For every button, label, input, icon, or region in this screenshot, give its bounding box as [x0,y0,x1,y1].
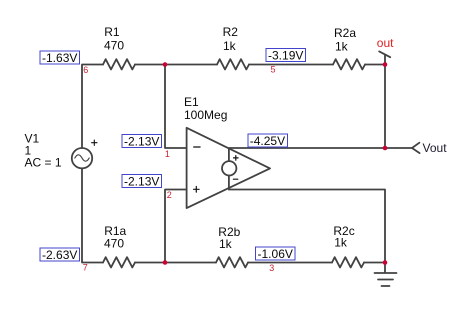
voltage box -3.19V [266,49,306,63]
wire R2a to out node [365,64,385,66]
svg-text:Vout: Vout [423,141,448,155]
svg-text:-1.63V: -1.63V [42,51,77,65]
svg-text:6: 6 [83,65,88,75]
wire node 1: junction down to E1 minus input [165,65,187,149]
svg-text:-4.25V: -4.25V [250,134,285,148]
svg-text:-3.19V: -3.19V [268,49,303,63]
svg-text:R2a: R2a [334,26,356,40]
junction dot node 6 [163,62,168,67]
voltage box -2.13V node 2 [122,175,162,189]
wire node 5 net: R2 to R2a [249,64,333,66]
svg-text:-2.13V: -2.13V [124,175,159,189]
op-amp E1 internal source circle [222,161,236,175]
svg-text:100Meg: 100Meg [184,108,227,122]
op-amp E1 source plus sign [234,156,239,161]
svg-text:AC = 1: AC = 1 [25,155,62,169]
svg-text:out: out [377,36,394,50]
wire top net: V1 plus terminal up to R1 [82,65,103,148]
op-amp E1 source minus sign [233,178,237,180]
svg-text:-2.63V: -2.63V [42,248,77,262]
resistor R2a [333,59,365,69]
wire output net: E1 out+ to Vout [229,147,412,149]
op-amp E1 internal source stem [228,148,230,189]
ground [375,263,397,287]
voltage source V1 circle [72,148,92,168]
op-amp E1 minus input sign [194,146,200,148]
voltage box -1.63V [40,51,80,65]
junction dot out top [383,62,388,67]
svg-text:R1: R1 [104,25,120,39]
voltage box -2.63V [40,248,80,262]
svg-text:3: 3 [269,263,274,273]
svg-text:470: 470 [104,236,124,250]
svg-text:-1.06V: -1.06V [258,247,293,261]
voltage source V1 plus sign [92,140,97,145]
wire V1 minus terminal down to bottom net [82,168,103,262]
wire E1 out- to ground node [229,190,385,263]
wire node 2: E1 plus input down to bottom net [165,190,187,263]
svg-text:1k: 1k [223,39,237,53]
svg-text:1k: 1k [335,39,349,53]
svg-text:470: 470 [104,38,124,52]
resistor R2b [216,257,248,267]
svg-text:E1: E1 [184,95,199,109]
voltage box -4.25V [248,134,288,148]
svg-text:1k: 1k [219,237,233,251]
svg-text:1k: 1k [334,236,348,250]
svg-text:5: 5 [271,64,276,74]
voltage source V1 sine [75,155,89,161]
pin marker out [379,51,390,64]
junction dot output net [383,146,388,151]
junction dot ground node [383,260,388,265]
pin Vout arrowhead [412,143,420,153]
svg-text:7: 7 [83,263,88,273]
junction dot node 7 [163,260,168,265]
wire R2c to ground node [364,262,385,264]
svg-text:1: 1 [165,149,170,159]
svg-text:2: 2 [167,190,172,200]
wire out node down to output net [384,65,386,149]
wire node 7 net: R1a to R2b [135,262,216,264]
wire node 6 net: R1 to R2 [135,64,217,66]
voltage box -1.06V [256,247,296,261]
resistor R1 [103,59,135,69]
op-amp E1 plus input sign [194,187,200,193]
op-amp E1 triangle [187,128,270,208]
resistor R1a [103,257,135,267]
svg-text:R2: R2 [223,25,239,39]
svg-text:-2.13V: -2.13V [124,135,159,149]
wire node 3 net: R2b to R2c [248,262,332,264]
resistor R2c [332,257,364,267]
resistor R2 [217,59,249,69]
voltage box -2.13V node 1 [122,135,162,149]
